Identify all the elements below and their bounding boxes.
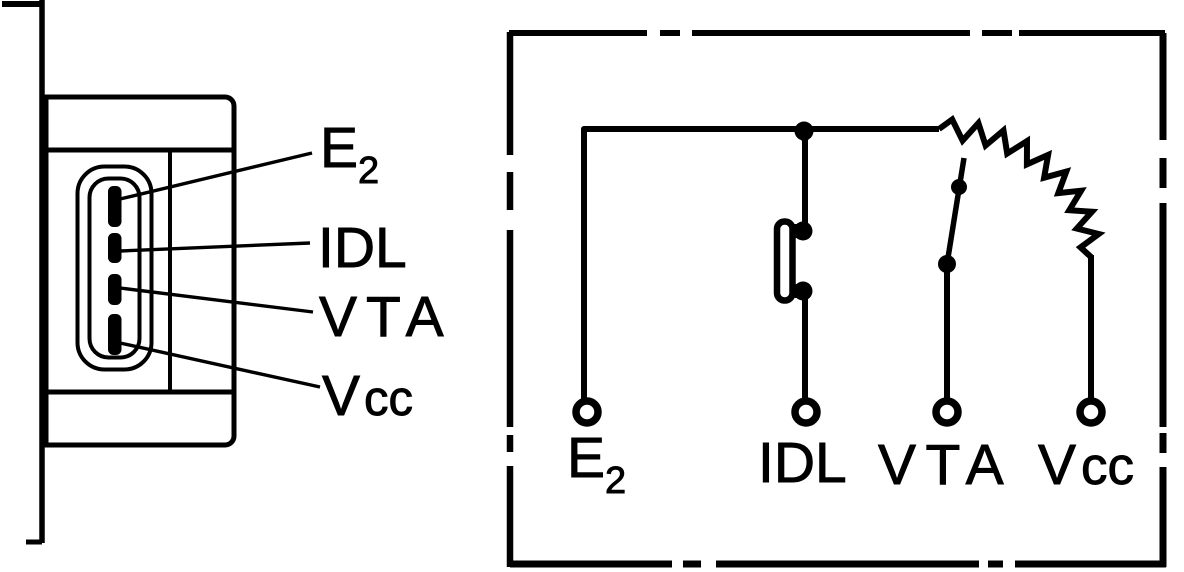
junction dot IDL rail — [793, 122, 815, 147]
wire E2 to resistor top rail — [584, 129, 939, 400]
IDL switch contact lower — [790, 282, 813, 301]
svg-text:Vcc: Vcc — [322, 364, 413, 428]
VTA wiper arm — [947, 158, 964, 264]
pin Vcc — [108, 314, 122, 355]
svg-text:VTA: VTA — [319, 285, 453, 349]
terminal Vcc — [1080, 401, 1102, 423]
connector lower seam — [46, 390, 234, 395]
svg-text:VTA: VTA — [878, 433, 1013, 497]
svg-text:IDL: IDL — [758, 431, 847, 495]
pin E2 — [108, 186, 122, 227]
wire Vcc — [1088, 255, 1094, 400]
leader to E2 — [120, 153, 312, 199]
VTA wiper dot lower — [938, 255, 956, 273]
leader to IDL — [120, 243, 310, 251]
enclosure border left (dash-dot) — [507, 32, 514, 567]
wire VTA — [944, 264, 950, 400]
leader to Vcc — [120, 343, 320, 387]
bracket top tick — [2, 1, 42, 7]
svg-text:Vcc: Vcc — [1038, 433, 1134, 497]
bracket bottom tick — [26, 540, 42, 545]
enclosure border bottom (dash-dot) — [510, 561, 1166, 568]
pin housing outer — [78, 167, 152, 370]
terminal E2 — [576, 401, 598, 423]
IDL switch strap — [777, 222, 793, 301]
enclosure border right (dash-dot) — [1160, 33, 1167, 567]
pin VTA — [108, 274, 122, 305]
connector upper seam — [46, 148, 234, 153]
wire IDL lower — [802, 291, 808, 400]
wire IDL upper — [802, 130, 808, 228]
svg-text:IDL: IDL — [318, 216, 407, 280]
leader to VTA — [120, 288, 313, 312]
terminal VTA — [936, 401, 958, 423]
bracket vertical line — [39, 0, 45, 543]
connector divider — [168, 152, 172, 392]
enclosure border top (dash-dot) — [509, 30, 1165, 36]
svg-text:E2: E2 — [320, 116, 379, 192]
pin housing inner — [90, 179, 140, 358]
VTA wiper dot upper — [951, 179, 967, 195]
terminal IDL — [795, 401, 817, 423]
pin IDL — [108, 233, 122, 263]
IDL switch contact upper — [790, 222, 813, 241]
svg-text:E2: E2 — [567, 426, 626, 502]
resistor R (zigzag arc) — [939, 120, 1099, 258]
connector body outline — [46, 97, 234, 445]
